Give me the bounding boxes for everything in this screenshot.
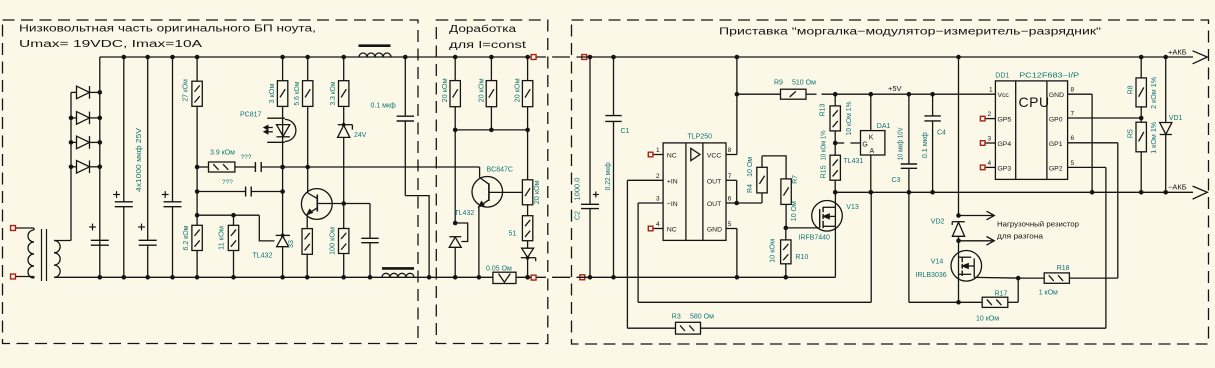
resistor 3.9 кОм (trimmer-marked) xyxy=(209,162,235,172)
svg-text:1 кОм: 1 кОм xyxy=(1039,289,1058,296)
svg-text:6: 6 xyxy=(728,196,732,203)
svg-text:VD2: VD2 xyxy=(931,219,945,226)
svg-text:GP0: GP0 xyxy=(1049,117,1063,124)
svg-text:для разгона: для разгона xyxy=(997,233,1043,240)
svg-text:GP3: GP3 xyxy=(998,165,1012,172)
transistor Q2 BC847C xyxy=(479,167,481,178)
wire: primary top lead xyxy=(16,227,34,229)
pin 2 GP5 (red square) xyxy=(985,118,995,120)
wire: rail down to V14 gate line xyxy=(908,192,910,302)
svg-text:???: ??? xyxy=(222,179,233,186)
wire: R18 to GP1 rail xyxy=(1069,277,1117,279)
svg-text:R13: R13 xyxy=(820,103,827,116)
capacitor C4 0.1 мкф xyxy=(930,92,935,97)
wire: pin3 rail down to L3 line xyxy=(637,203,639,302)
svg-text:51: 51 xyxy=(509,230,517,237)
svg-text:10 Ом: 10 Ом xyxy=(747,157,754,177)
wire: secondary top lead to rectifier xyxy=(54,240,71,242)
wire: pin2 rail down to R3 line xyxy=(626,180,628,328)
svg-text:20 кОм: 20 кОм xyxy=(515,78,522,102)
svg-text:NC: NC xyxy=(667,227,677,234)
pin 2 +IN xyxy=(627,179,663,181)
wire: GND pin to ground bus xyxy=(736,229,738,278)
inductor L1 (top, with core bar) xyxy=(359,44,391,47)
zener diode (below 51) xyxy=(522,248,534,257)
svg-text:6: 6 xyxy=(1071,135,1075,142)
svg-text:1 кОм 1%: 1 кОм 1% xyxy=(1151,122,1158,154)
node: V14 gate node xyxy=(956,300,961,305)
svg-text:10 кОм: 10 кОм xyxy=(769,239,776,263)
diode VD rectifier 4 xyxy=(71,166,77,168)
svg-text:Vcc: Vcc xyxy=(998,92,1010,99)
capacitor 0.1 мкф xyxy=(404,57,406,116)
pin 7 GP0 xyxy=(1068,117,1142,119)
svg-text:R4: R4 xyxy=(747,184,754,193)
wire: DA1 cathode to +5V xyxy=(869,92,874,97)
node: R13/R15 divider xyxy=(833,141,838,146)
wire: V13 source to ground bus xyxy=(834,226,836,277)
wire: bottom bus of PSU section (secondary side) xyxy=(54,276,546,278)
pin 5 GP2 xyxy=(1068,166,1106,168)
wire: long feedback line to BC847C base xyxy=(283,166,480,168)
svg-text:20 кОм: 20 кОм xyxy=(442,78,449,102)
svg-text:0.22 мкф: 0.22 мкф xyxy=(605,162,612,190)
resistor R7 10 Ом xyxy=(781,179,791,205)
svg-text:K: K xyxy=(869,135,874,142)
capacitor C2 1000.0 (electrolytic) xyxy=(588,55,593,60)
pin 6 GP1 xyxy=(1068,142,1118,144)
capacitor C3 10 мкф 10V xyxy=(907,92,912,97)
wire: collector rail xyxy=(307,106,309,167)
svg-text:20 кОм: 20 кОм xyxy=(534,180,541,204)
svg-text:4: 4 xyxy=(656,221,660,228)
terminal (red square, middle box output +) xyxy=(531,55,536,60)
wire: second feedback line y=191.5 with capacitor xyxy=(195,189,200,194)
svg-text:C4: C4 xyxy=(937,130,946,137)
svg-text:−АКБ: −АКБ xyxy=(1168,183,1187,192)
svg-text:7: 7 xyxy=(1071,110,1075,117)
resistors 20 кОм x3 (parallel bank) xyxy=(453,55,458,60)
resistor 6.2 кОм xyxy=(192,225,202,250)
svg-text:1: 1 xyxy=(656,147,660,154)
resistor 51 xyxy=(522,216,532,241)
svg-text:5: 5 xyxy=(728,221,732,228)
svg-text:3: 3 xyxy=(988,135,992,142)
svg-text:4х1000 мкф 25V: 4х1000 мкф 25V xyxy=(136,128,143,192)
wire: internal ground bus xyxy=(577,276,836,278)
wire: DA1 anode to -AKB bus xyxy=(870,155,872,192)
wire: R3 line right part to GP2 rail xyxy=(701,327,1106,329)
shunt regulator DA1 TL431 xyxy=(861,131,885,155)
shunt regulator TL432 (zener with ref tap) xyxy=(276,234,290,236)
svg-text:1000.0: 1000.0 xyxy=(575,177,582,200)
wire: divider line y=215.2 xyxy=(195,213,200,218)
resistor 100 кОм xyxy=(343,204,345,229)
svg-text:R5: R5 xyxy=(1128,129,1135,138)
svg-text:+IN: +IN xyxy=(667,178,678,185)
wire: TL432 rail xyxy=(454,130,456,223)
svg-text:5: 5 xyxy=(1071,160,1075,167)
terminal (red square, middle box output -) xyxy=(531,275,536,280)
wire: base line y=167 with resistor 3.9k and capacitor xyxy=(195,165,200,170)
capacitor (series, feedback) xyxy=(254,162,256,172)
svg-text:CPU: CPU xyxy=(1019,94,1050,110)
pin 3 GP4 (red square) xyxy=(985,142,995,144)
svg-text:2: 2 xyxy=(988,111,992,118)
svg-text:IRLB3036: IRLB3036 xyxy=(916,272,947,279)
svg-text:G: G xyxy=(862,142,867,149)
svg-text:PC817: PC817 xyxy=(240,112,262,119)
svg-text:0.1 мкф: 0.1 мкф xyxy=(371,103,397,110)
wire: rail -AKB down to L3 line xyxy=(870,192,872,302)
svg-text:C1: C1 xyxy=(621,128,630,135)
resistor R4 10 Ом xyxy=(737,202,762,204)
svg-text:TL432: TL432 xyxy=(454,210,474,217)
svg-text:11 кОм: 11 кОм xyxy=(219,226,226,250)
zener diode 24V xyxy=(343,106,345,125)
svg-text:2 кОм 1%: 2 кОм 1% xyxy=(1151,77,1158,109)
svg-text:2: 2 xyxy=(656,173,660,180)
svg-text:BC847C: BC847C xyxy=(487,167,513,174)
node: +5V feed xyxy=(735,92,740,97)
resistor R13 10 кОм 1% xyxy=(833,92,838,97)
svg-text:6.2 кОм: 6.2 кОм xyxy=(183,225,190,250)
capacitor C filter 1 (electrolytic, on rail x=123.8) xyxy=(123,57,125,202)
svg-text:8: 8 xyxy=(1071,87,1075,94)
optocoupler PC817 LED xyxy=(282,106,284,235)
svg-text:8: 8 xyxy=(728,147,732,154)
resistor 11 кОм xyxy=(233,215,235,225)
shunt resistor 0.05 Ом xyxy=(493,272,516,283)
capacitor C filter 4 (electrolytic, lower, on rail x=99.8) xyxy=(91,239,109,241)
resistor 3 кОм xyxy=(280,55,285,60)
wire: GND rail to -AKB bus xyxy=(1091,94,1093,192)
diode VD1 xyxy=(1163,55,1168,60)
wire: divider to DA1 ref xyxy=(835,142,844,144)
svg-text:A: A xyxy=(870,148,875,155)
node: Q1 base junction xyxy=(341,201,346,206)
wire: VCC rail from top bus xyxy=(735,55,740,60)
svg-text:Нагрузочный резистор: Нагрузочный резистор xyxy=(997,221,1079,229)
svg-text:R9: R9 xyxy=(774,79,783,86)
svg-text:R10: R10 xyxy=(795,254,808,261)
svg-text:580 Ом: 580 Ом xyxy=(690,313,714,320)
svg-text:10 кОм 1%: 10 кОм 1% xyxy=(846,102,853,136)
svg-text:R17: R17 xyxy=(995,290,1008,297)
svg-text:0.05 Ом: 0.05 Ом xyxy=(486,265,512,272)
diode VD rectifier 3 xyxy=(71,141,77,143)
svg-text:R3: R3 xyxy=(672,313,681,320)
svg-text:R18: R18 xyxy=(1057,265,1070,272)
wire: -AKB bus xyxy=(835,191,1193,193)
svg-text:для I=const: для I=const xyxy=(449,40,526,51)
resistor 3.3 кОм xyxy=(341,55,346,60)
svg-text:5.6 кОм: 5.6 кОм xyxy=(294,81,301,105)
svg-text:3.9 кОм: 3.9 кОм xyxy=(210,150,235,157)
svg-text:Umax= 19VDC, Imax=10A: Umax= 19VDC, Imax=10A xyxy=(19,39,203,50)
svg-text:R15: R15 xyxy=(820,165,827,178)
diode VD rectifier 1 xyxy=(71,91,77,93)
svg-text:27 кОм: 27 кОм xyxy=(183,79,190,102)
pin 8 GND xyxy=(1068,93,1093,95)
wire: primary bottom lead xyxy=(16,276,34,278)
transistor Q1 (PSU regulator, NPN) xyxy=(301,189,332,220)
pin 6 OUT xyxy=(726,202,737,204)
svg-text:DD1: DD1 xyxy=(995,72,1009,79)
svg-text:???: ??? xyxy=(241,154,252,161)
node: TL432 ref junction xyxy=(453,221,458,226)
wire: rail to 20k/51 divider xyxy=(527,130,529,180)
wire: OUT pins tie xyxy=(736,180,738,203)
wire: inter-block link segment (bottom) xyxy=(552,276,570,278)
wire: GP2 rail down to R3 line xyxy=(1105,167,1107,328)
optocoupler driver U1 TLP250 body xyxy=(663,143,726,241)
block boundary: I=const modification (dashed) xyxy=(436,20,548,344)
node xyxy=(1016,276,1021,281)
wire: jog to bottom bus xyxy=(405,196,429,278)
pin 4 GP3 (red square) xyxy=(985,166,995,168)
capacitor C1 0.22 мкф xyxy=(611,55,616,60)
svg-text:+5V: +5V xyxy=(888,84,902,93)
svg-text:10 мкф 10V: 10 мкф 10V xyxy=(898,127,905,160)
svg-text:GP1: GP1 xyxy=(1049,141,1063,148)
svg-text:4: 4 xyxy=(988,160,992,167)
block boundary: original laptop PSU low-voltage section (dashed) xyxy=(3,20,419,344)
wire xyxy=(235,166,256,168)
wire: top bus of PSU section xyxy=(100,56,546,58)
svg-text:OUT: OUT xyxy=(707,201,721,208)
wire: +AKB top bus xyxy=(577,56,1194,58)
svg-text:7: 7 xyxy=(728,173,732,180)
svg-text:OUT: OUT xyxy=(707,178,721,185)
diode VD2 (zener, discharge chain) xyxy=(958,57,960,216)
svg-text:DA1: DA1 xyxy=(877,123,891,130)
svg-text:R8: R8 xyxy=(1128,85,1135,94)
transformer T1 primary winding xyxy=(28,230,34,242)
svg-text:IRFB7440: IRFB7440 xyxy=(798,234,830,241)
svg-text:GP4: GP4 xyxy=(998,141,1012,148)
svg-text:Доработка: Доработка xyxy=(449,23,517,35)
shunt regulator TL432 (second) xyxy=(455,223,468,242)
optocoupler PC817 emission arrows xyxy=(265,127,273,129)
wire: V14 source out to R18 xyxy=(974,276,1018,279)
resistor 5.6 кОм xyxy=(305,55,310,60)
terminal (red square, right box input -) xyxy=(580,275,585,280)
svg-text:TL431: TL431 xyxy=(844,158,864,165)
resistor R3 580 Ом (trimmer-marked) xyxy=(676,322,701,334)
svg-text:−IN: −IN xyxy=(667,201,678,208)
wire: rectifier output rail xyxy=(99,57,101,277)
resistor R8 2 кОм 1% xyxy=(1139,55,1144,60)
svg-text:10 кОм 1%: 10 кОм 1% xyxy=(820,130,827,160)
pin 7 OUT xyxy=(726,179,737,181)
svg-text:NC: NC xyxy=(667,153,677,160)
svg-text:33: 33 xyxy=(288,240,295,248)
resistor R9 510 Ом xyxy=(737,93,781,95)
svg-text:GP2: GP2 xyxy=(1049,165,1063,172)
resistor R18 1 кОм (trimmer-marked) xyxy=(1044,273,1069,283)
wire: bank bottom tie line xyxy=(455,129,527,131)
arrow: load resistor tap (upper) xyxy=(959,215,994,217)
wire: +5V line xyxy=(806,93,817,95)
node: GP0/R8/R5 xyxy=(1139,116,1144,121)
resistor R10 10 кОм xyxy=(785,228,787,240)
wire: V13 drain to -AKB bus xyxy=(834,192,836,207)
wire: bridge R4 top to R7 top xyxy=(762,156,786,179)
resistor 27 кОм xyxy=(196,57,198,81)
svg-text:3.3 кОм: 3.3 кОм xyxy=(330,81,337,105)
diode VD rectifier 2 xyxy=(71,117,77,119)
pin 1 NC (red square) xyxy=(653,154,663,156)
resistor R5 1 кОм 1% xyxy=(1140,118,1142,122)
svg-text:C2: C2 xyxy=(575,211,582,220)
inductor L2 (bottom, with core bar) xyxy=(382,267,414,270)
arrow: +AKB output xyxy=(1193,51,1208,64)
pin 8 VCC xyxy=(726,154,737,156)
resistor 33 xyxy=(302,229,312,255)
wire xyxy=(251,191,282,193)
pin 3 -IN xyxy=(638,202,663,204)
svg-text:C3: C3 xyxy=(892,177,901,184)
svg-text:Приставка "моргалка−модулятор−: Приставка "моргалка−модулятор−измеритель… xyxy=(719,27,1102,38)
svg-text:10 Ом: 10 Ом xyxy=(791,201,798,221)
svg-text:+АКБ: +АКБ xyxy=(1168,48,1187,57)
capacitor (series, feedback 2) xyxy=(245,187,247,197)
microcontroller DD1 PIC12F683 body xyxy=(995,81,1067,179)
svg-text:10 кОм: 10 кОм xyxy=(976,315,999,322)
svg-text:V14: V14 xyxy=(931,259,944,266)
svg-text:VD1: VD1 xyxy=(1169,115,1183,122)
arrow: -AKB output xyxy=(1193,186,1208,199)
block boundary: blinker-modulator attachment (dashed) xyxy=(572,20,1209,344)
svg-text:PC12F683−I/P: PC12F683−I/P xyxy=(1019,72,1079,79)
transistor V13 IRFB7440 (N-MOSFET) xyxy=(812,201,843,232)
svg-text:GND: GND xyxy=(1049,92,1064,99)
capacitor (base filter) xyxy=(361,237,378,239)
transformer T1 secondary winding xyxy=(54,241,60,253)
wire: R3 line left part xyxy=(627,327,675,329)
node: V13 gate node xyxy=(784,226,789,231)
transformer T1 primary terminal (red square, bottom) xyxy=(11,274,16,279)
wire: base node to cap xyxy=(344,203,370,205)
svg-text:TL432: TL432 xyxy=(253,253,273,260)
wire: inter-block link segment (top) xyxy=(552,56,570,58)
wire xyxy=(261,166,282,168)
resistor 20 кОм (divider top) xyxy=(522,180,532,205)
wire: R17 to R18 junction xyxy=(1008,301,1018,303)
node: junction after L1 xyxy=(403,55,408,60)
transformer T1 primary terminal (red square, top) xyxy=(11,226,16,231)
transformer T1 core xyxy=(41,229,43,281)
svg-text:Низковольтная часть оригинальн: Низковольтная часть оригинального БП ноу… xyxy=(19,24,316,35)
svg-text:24V: 24V xyxy=(354,132,367,139)
svg-text:20 кОм: 20 кОм xyxy=(478,78,485,102)
svg-text:R7: R7 xyxy=(792,175,799,184)
svg-text:GND: GND xyxy=(707,227,722,234)
pin 4 NC (red square) xyxy=(653,228,663,230)
svg-text:VCC: VCC xyxy=(707,153,721,160)
svg-text:TLP250: TLP250 xyxy=(688,134,713,141)
resistor R17 10 кОм (trimmer-marked) xyxy=(982,297,1008,307)
wire: GP1 rail down to R18 xyxy=(1117,143,1119,278)
svg-text:1: 1 xyxy=(989,87,993,94)
node xyxy=(525,275,530,280)
pin 5 GND xyxy=(726,228,737,230)
svg-text:V13: V13 xyxy=(846,204,859,211)
capacitor C filter 3 (electrolytic, on rail x=172.5) xyxy=(172,57,174,202)
svg-text:510 Ом: 510 Ом xyxy=(792,79,816,86)
svg-text:3: 3 xyxy=(656,196,660,203)
svg-text:GP5: GP5 xyxy=(998,117,1012,124)
svg-text:100 кОм: 100 кОм xyxy=(330,227,337,255)
arrow: load resistor tap (lower) xyxy=(959,240,994,242)
svg-text:3 кОм: 3 кОм xyxy=(269,83,276,103)
svg-text:0.1 мкф: 0.1 мкф xyxy=(922,132,929,158)
capacitor C filter 2 (electrolytic, on rail x=147.7) xyxy=(147,57,149,240)
terminal (red square, right box input +) xyxy=(582,55,587,60)
transistor V14 IRLB3036 (N-MOSFET, discharge) xyxy=(951,250,982,281)
resistor R15 10 кОм 1% xyxy=(834,143,836,155)
wire: L3 line xyxy=(638,301,871,303)
